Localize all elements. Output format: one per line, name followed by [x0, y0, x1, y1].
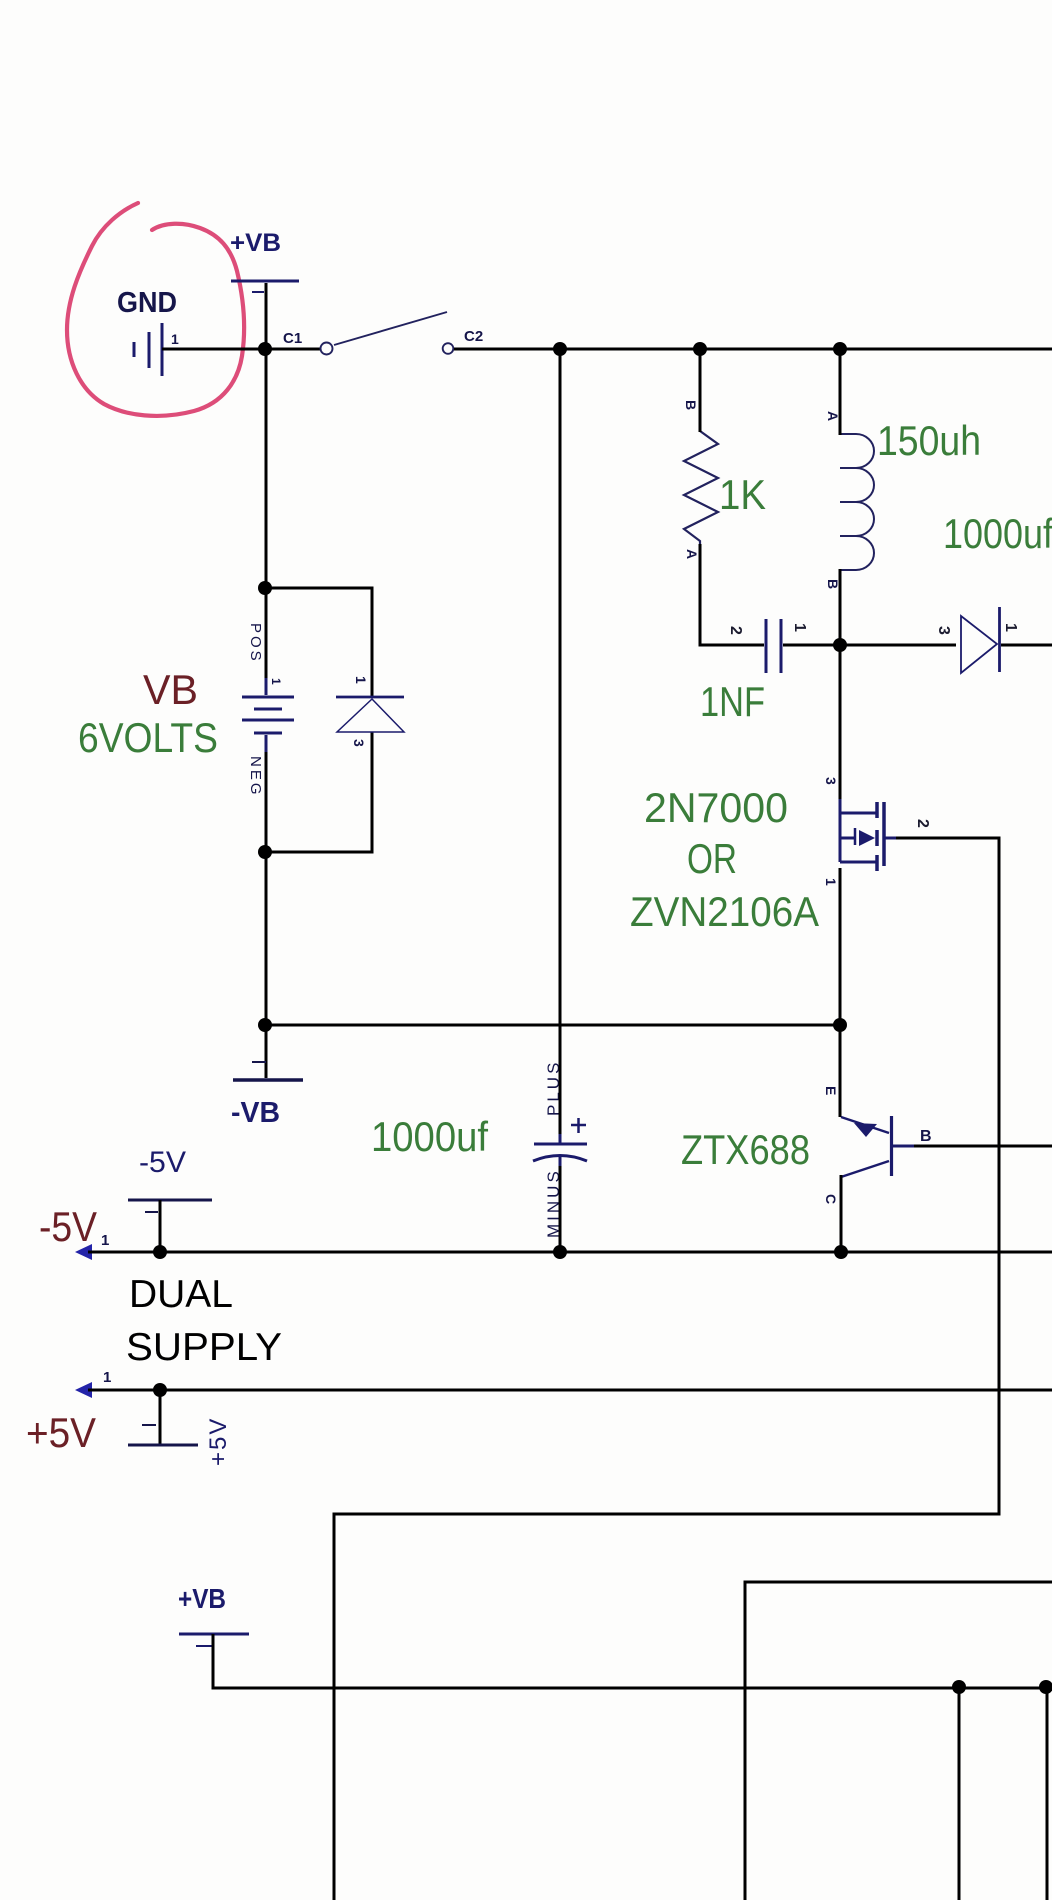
svg-text:C2: C2: [464, 328, 483, 345]
wire x840 inductor top: [839, 349, 842, 435]
svg-text:GND: GND: [117, 287, 177, 319]
svg-text:ZTX688: ZTX688: [681, 1126, 810, 1173]
transistor Q2 ZTX688: [841, 1116, 892, 1177]
transistor Q1 MOSFET 2N7000: [840, 799, 897, 871]
wire x560 top: [559, 349, 562, 1134]
svg-text:1: 1: [269, 678, 283, 685]
wire x1046 down: [1046, 1688, 1049, 1900]
svg-text:6VOLTS: 6VOLTS: [78, 714, 218, 761]
svg-text:E: E: [823, 1086, 839, 1095]
wire battery to lower rail: [265, 752, 268, 1078]
svg-text:1: 1: [353, 676, 369, 684]
wire x700 top: [699, 349, 702, 432]
svg-text:+VB: +VB: [230, 229, 281, 257]
node battery top branch: [258, 581, 272, 595]
wire x700 bottom: [700, 544, 764, 645]
node collector bottom: [834, 1245, 848, 1259]
node at x=700: [693, 342, 707, 356]
plus sign of C4: [571, 1118, 586, 1133]
wire +VB rail down: [265, 283, 268, 680]
wire x840 to mosfet: [839, 645, 842, 799]
wire diode branch top: [265, 588, 372, 696]
svg-text:B: B: [920, 1128, 932, 1145]
node at 840,1025: [833, 1018, 847, 1032]
node lower-left rail: [258, 1018, 272, 1032]
svg-text:3: 3: [351, 739, 367, 747]
body arrow of Q1: [859, 830, 875, 846]
wire main top to switch: [264, 348, 320, 351]
wire +5V rail: [88, 1389, 1052, 1392]
svg-text:1000uf: 1000uf: [371, 1113, 488, 1160]
wire x840 inductor bottom: [839, 569, 842, 645]
switch C1-C2: [321, 312, 454, 355]
svg-text:-VB: -VB: [231, 1097, 280, 1129]
svg-text:POS: POS: [247, 623, 264, 664]
svg-text:SUPPLY: SUPPLY: [126, 1326, 282, 1369]
diode D2: [961, 607, 1000, 673]
svg-text:3: 3: [935, 626, 952, 635]
wire x840 node to ZTX emitter: [839, 1025, 842, 1117]
svg-text:1: 1: [171, 331, 179, 347]
svg-text:A: A: [684, 549, 700, 559]
wire gate of Q1: [334, 838, 999, 1900]
power symbol +VB (bottom): [179, 1634, 249, 1646]
svg-text:-5V: -5V: [39, 1203, 97, 1250]
base lead of Q2: [893, 1145, 914, 1148]
supply symbol +5V: [128, 1390, 198, 1445]
svg-text:B: B: [825, 579, 841, 589]
svg-text:1K: 1K: [719, 471, 766, 518]
svg-text:+5V: +5V: [205, 1417, 232, 1466]
wire node to diode D2: [840, 644, 956, 647]
pink annotation circle: [67, 203, 244, 416]
wire x840 mosfet to node: [839, 868, 842, 1025]
svg-text:A: A: [825, 411, 841, 421]
supply symbol -5V: [128, 1200, 212, 1252]
svg-text:1: 1: [791, 623, 808, 632]
power symbol +VB (top): [231, 281, 299, 292]
wire top-right frame: [745, 1582, 1052, 1900]
node at 959,1690: [952, 1680, 966, 1694]
ground -VB: [233, 1062, 303, 1080]
svg-text:1: 1: [1002, 623, 1019, 632]
node junction at +VB rail: [258, 342, 272, 356]
svg-text:+VB: +VB: [178, 1583, 226, 1614]
svg-text:VB: VB: [143, 666, 198, 713]
wire cap to node: [783, 644, 840, 647]
svg-text:NEG: NEG: [247, 756, 264, 798]
node at 840,645: [833, 638, 847, 652]
svg-text:2N7000: 2N7000: [644, 784, 788, 831]
wire D2 to right edge: [1001, 644, 1052, 647]
wire diode branch bottom: [265, 732, 372, 852]
node -5V stub: [153, 1245, 167, 1259]
svg-text:1: 1: [823, 878, 839, 886]
node at 1046,1690: [1039, 1680, 1052, 1694]
wire base of Q2 to right edge: [914, 1145, 1052, 1148]
port arrow -5V: [75, 1244, 92, 1260]
capacitor C3 1NF: [766, 619, 781, 673]
node cap bottom: [553, 1245, 567, 1259]
emitter arrow of Q2: [854, 1123, 877, 1137]
wire x959 down: [958, 1688, 961, 1900]
diode D1 across battery: [336, 697, 404, 732]
inductor L1 150uh: [840, 434, 874, 570]
resistor R1 1K: [684, 431, 718, 546]
node at x=560: [553, 342, 567, 356]
svg-text:3: 3: [823, 777, 839, 785]
ground GND: [134, 323, 162, 376]
wire -5V rail: [88, 1251, 1052, 1254]
wire collector of Q2 down: [840, 1175, 843, 1252]
svg-text:1: 1: [103, 1369, 111, 1386]
battery VB 6VOLTS: [242, 678, 294, 754]
wire +VB bottom rail: [213, 1634, 1052, 1688]
wire horizontal lower rail: [265, 1024, 840, 1027]
svg-text:-5V: -5V: [139, 1146, 186, 1179]
svg-text:B: B: [683, 400, 699, 410]
port arrow +5V: [75, 1382, 92, 1398]
electrolytic capacitor C4 1000uf: [533, 1133, 587, 1168]
wire switch to right edge: [454, 348, 1052, 351]
svg-text:150uh: 150uh: [877, 417, 981, 464]
svg-text:ZVN2106A: ZVN2106A: [630, 888, 819, 935]
svg-text:2: 2: [914, 819, 931, 828]
svg-text:C1: C1: [283, 330, 302, 347]
node battery bottom branch: [258, 845, 272, 859]
node +5V stub: [153, 1383, 167, 1397]
svg-text:1NF: 1NF: [700, 678, 765, 725]
wire x560 bottom: [559, 1166, 562, 1252]
svg-text:+5V: +5V: [26, 1409, 96, 1456]
svg-text:1: 1: [101, 1232, 109, 1249]
node at x=840: [833, 342, 847, 356]
svg-text:C: C: [823, 1194, 839, 1204]
svg-text:1000uf: 1000uf: [943, 510, 1052, 557]
svg-text:OR: OR: [687, 835, 737, 882]
wire GND to junction: [162, 348, 266, 351]
svg-text:2: 2: [727, 626, 744, 635]
svg-text:DUAL: DUAL: [129, 1273, 233, 1316]
